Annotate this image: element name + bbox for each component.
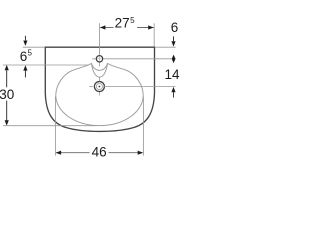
dimension 46 line right segment [109, 152, 143, 154]
dimension 6.5 up arrowhead [23, 65, 27, 70]
dimension 27.5 left arrowhead [100, 25, 105, 29]
dimension 46 right arrowhead [138, 151, 143, 155]
dimension 6 upper stem [173, 36, 175, 41]
46 dim extension right vertical [142, 97, 144, 156]
27.5 dim extension right vertical [153, 23, 155, 47]
dimension 30 down arrowhead [5, 120, 9, 125]
tap hole inner cross [97, 57, 102, 62]
dimension 27.5 line left segment [100, 27, 113, 29]
dimension 6 down arrowhead [171, 41, 175, 46]
back edge extension left [23, 46, 45, 48]
dimension 14 up arrowhead [171, 87, 175, 92]
dimension 30 upper stem [6, 70, 8, 87]
drain center line left tick [89, 86, 92, 88]
svg-text:14: 14 [165, 67, 181, 82]
overflow crescent lower arc [92, 63, 108, 77]
dimension 6-14 shared diamond [172, 55, 176, 64]
drain center line vertical top [98, 78, 100, 82]
dimension 27.5 right arrowhead [148, 25, 153, 29]
dimension 30 up arrowhead [5, 65, 9, 70]
tap hole center line vertical bottom [99, 62, 101, 66]
dimension 30 lower stem [6, 101, 8, 121]
bowl bottom extension left [3, 125, 97, 127]
bowl inner outline [56, 63, 143, 125]
bowl top extension left [3, 64, 89, 66]
tap hole center line vertical top (also 27.5 extension) [99, 23, 101, 55]
back edge extension right [155, 46, 176, 48]
svg-text:6: 6 [171, 20, 179, 35]
dimension 6.5 lower stem [24, 71, 26, 78]
dimension 6.5 upper stem [24, 36, 26, 41]
dimension 46 left arrowhead [56, 151, 61, 155]
dimension 14 lower stem [173, 92, 175, 97]
drain center line right (reference to 14 dim) [103, 86, 175, 88]
dimension 46 line left segment [56, 152, 89, 154]
washbasin outer outline [45, 47, 154, 131]
drain center line vertical bottom [98, 92, 100, 96]
tap hole center line left tick [92, 58, 96, 60]
drain inner circle [96, 83, 102, 89]
46 dim extension left vertical [54, 97, 56, 156]
tap hole center line right (reference to 6 dim) [103, 58, 171, 60]
tap hole [96, 56, 102, 62]
svg-text:46: 46 [92, 144, 107, 159]
drain outer circle [94, 82, 104, 92]
dimension 27.5 line right segment [137, 27, 153, 29]
svg-text:30: 30 [0, 87, 14, 102]
dimension 6.5 down arrowhead [23, 41, 27, 46]
drain center dot [99, 86, 101, 88]
